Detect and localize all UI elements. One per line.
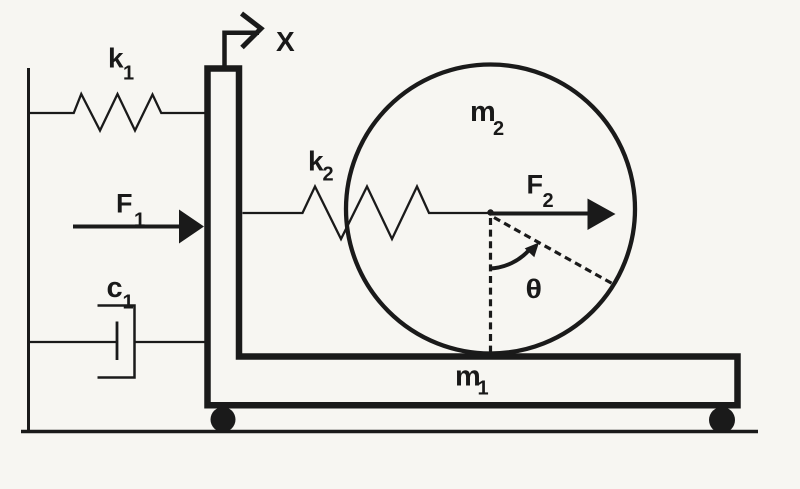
- spring k1: [29, 94, 206, 131]
- coordinate arrow X open head: [242, 14, 262, 48]
- svg-text:θ: θ: [526, 274, 543, 304]
- svg-text:1: 1: [134, 210, 145, 232]
- svg-text:1: 1: [123, 292, 134, 314]
- svg-text:1: 1: [123, 63, 134, 85]
- node center dot: [487, 209, 493, 215]
- damper c1 rod right: [135, 341, 206, 343]
- svg-text:2: 2: [543, 190, 554, 212]
- coordinate arrow X: [225, 33, 260, 66]
- damper c1 rod left: [29, 341, 118, 343]
- svg-text:c: c: [107, 272, 123, 304]
- svg-text:F: F: [527, 170, 544, 200]
- force F1 arrow: [73, 225, 181, 229]
- wheel left: [211, 407, 236, 432]
- svg-text:F: F: [116, 188, 133, 218]
- svg-text:2: 2: [323, 164, 334, 186]
- damper c1 cylinder: [98, 306, 135, 378]
- svg-text:1: 1: [478, 378, 489, 400]
- disk m2: [346, 65, 635, 354]
- dashed diagonal line: [494, 218, 613, 285]
- wheel right: [709, 407, 735, 433]
- damper c1 piston: [116, 322, 119, 361]
- angle arc arrow: [490, 249, 531, 269]
- svg-text:m: m: [470, 96, 496, 128]
- svg-text:X: X: [276, 26, 295, 57]
- dashed vertical line: [489, 218, 492, 354]
- ground: [21, 430, 758, 434]
- force F2 arrow: [491, 212, 589, 216]
- cart m1 L-shaped body: [208, 69, 738, 406]
- spring k2: [243, 187, 489, 240]
- wall: [27, 68, 30, 432]
- svg-text:2: 2: [493, 118, 504, 140]
- svg-text:k: k: [108, 43, 124, 74]
